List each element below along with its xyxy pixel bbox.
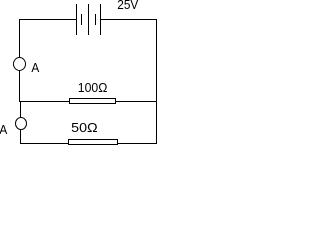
wire left upper vertical [19, 19, 20, 58]
battery B1 short plate 2 [95, 14, 96, 25]
wire top-left horizontal [19, 19, 77, 20]
svg-text:A: A [31, 60, 39, 75]
resistor R1 100ohm box [70, 99, 116, 104]
ammeter A2 circle [16, 118, 27, 130]
battery B1 long plate 3 [100, 4, 101, 35]
svg-text:A: A [0, 122, 8, 137]
wire middle branch left [19, 101, 70, 102]
wire bottom horizontal [20, 143, 157, 144]
resistor R2 50ohm box [69, 140, 118, 145]
node junction left [20, 101, 21, 118]
svg-text:25V: 25V [117, 0, 138, 12]
wire right vertical [156, 19, 157, 144]
battery B1 long plate 1 [76, 4, 77, 35]
wire left middle vertical [19, 70, 20, 102]
ammeter A1 circle [14, 58, 26, 71]
battery B1 short plate 1 [81, 14, 82, 25]
wire top-right horizontal [100, 19, 157, 20]
wire middle branch right [115, 101, 157, 102]
svg-text:50Ω: 50Ω [71, 120, 98, 135]
svg-text:100Ω: 100Ω [78, 80, 108, 95]
battery B1 long plate 2 [88, 4, 89, 35]
wire left lower vertical [20, 129, 21, 144]
